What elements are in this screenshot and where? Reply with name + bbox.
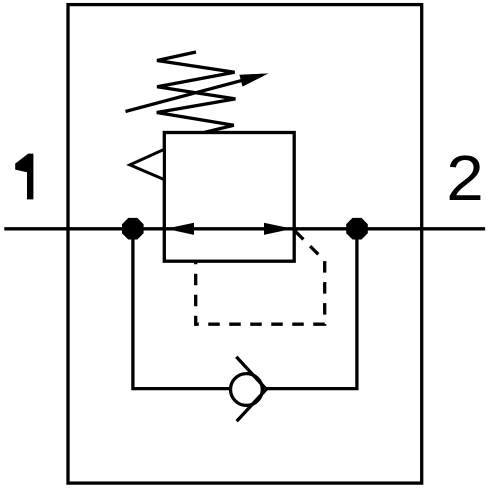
- port label 1: [15, 154, 33, 200]
- flow path arrowhead right (inside body, pointing to port 2): [264, 223, 292, 235]
- flow path arrowhead left (inside body, pointing to port 1): [166, 223, 194, 235]
- adjustment arrow head: [239, 73, 268, 86]
- check valve ball (circle in bypass): [231, 374, 263, 406]
- check valve seat (angled lines): [236, 357, 266, 422]
- enclosure box (regulator assembly outline): [68, 5, 422, 484]
- svg-text:2: 2: [446, 141, 484, 213]
- junction dot left (node on line 1): [122, 218, 144, 240]
- relief vent triangle on body left edge: [130, 149, 164, 179]
- pilot control dashed line from body to downstream: [196, 231, 325, 324]
- bypass line (left drop, bottom run, right rise): [133, 229, 357, 389]
- regulator body (valve square): [164, 133, 294, 262]
- adjustment arrow shaft (through spring): [126, 75, 263, 111]
- main flow line from port 1 to port 2: [4, 227, 485, 230]
- junction dot right (node on line 2): [346, 218, 368, 240]
- spring (adjustable spring zigzag above body): [157, 52, 236, 132]
